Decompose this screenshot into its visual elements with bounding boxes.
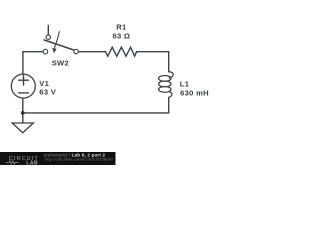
svg-text:SW2: SW2 [52,58,69,67]
watermark CircuitLab logo [9,156,39,166]
switch SW2 arm [44,40,74,50]
voltage source V1 [11,74,35,98]
resistor R1 [106,47,137,56]
svg-text:63 Ω: 63 Ω [112,31,130,40]
svg-text:630 mH: 630 mH [180,89,209,98]
wire V1 bottom to ground [22,99,24,123]
watermark bar [0,152,116,165]
watermark logo zigzag [6,161,19,164]
ground [12,123,33,133]
svg-text:R1: R1 [116,22,127,31]
switch SW2 terminals [43,49,48,54]
svg-text:V1: V1 [39,79,49,88]
svg-text:63 V: 63 V [39,88,56,97]
V1 minus sign [19,92,28,94]
svg-text:http://circuitlab.com/c73e5d22: http://circuitlab.com/c73e5d2258b67 [45,157,114,162]
wire top-left: V1 top to switch left terminal [23,52,43,74]
inductor L1 coil [169,72,174,78]
svg-text:L1: L1 [180,79,190,88]
switch SW2 arrowhead [52,48,56,53]
wire L1 bottom to bottom-right corner [23,98,169,113]
V1 plus sign [19,79,28,81]
switch SW2 arrow arc [55,32,60,48]
svg-text:LAB: LAB [26,160,38,165]
wire switch right terminal to R1 [78,51,105,53]
wire R1 to top-right corner and down to L1 [137,52,169,72]
switch SW2 top stub [47,26,49,35]
junction node [21,111,25,115]
